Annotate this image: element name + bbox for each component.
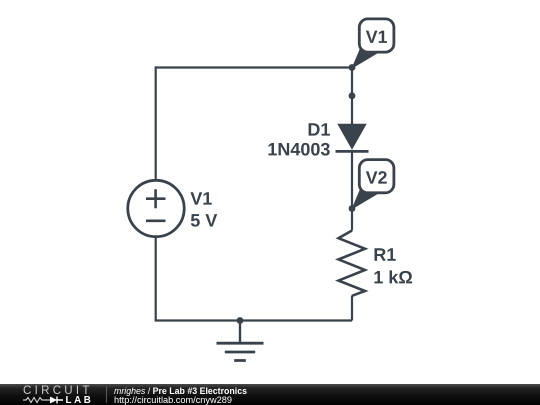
voltage source V1 5V — [128, 180, 184, 236]
wire right vertical V1-node to diode node — [351, 68, 353, 96]
wire left vertical (top) — [155, 66, 157, 181]
label 1N4003 — [268, 143, 329, 156]
probe flag V1 — [351, 19, 394, 69]
wire left vertical (bottom) — [155, 237, 157, 321]
label 1 kOhm — [374, 270, 412, 283]
footer line 1: author / title — [114, 387, 247, 396]
footer line 2: url — [114, 396, 232, 405]
probe flag V2 — [351, 160, 394, 210]
ground — [217, 321, 264, 361]
wire diode anode lead — [351, 96, 353, 125]
label V1 (source name) — [190, 192, 211, 204]
wire resistor top lead — [351, 209, 353, 231]
node dot V2 / resistor top — [349, 205, 356, 212]
node dot top-right corner — [349, 64, 356, 71]
label 5 V (source value) — [191, 214, 217, 227]
wire top rail — [156, 66, 352, 68]
resistor R1 zigzag — [339, 231, 366, 296]
footer separator — [106, 386, 107, 403]
wire resistor bottom lead — [351, 296, 353, 321]
diode D1 1N4003 — [336, 124, 369, 152]
footer bar — [0, 384, 540, 405]
node dot ground junction — [237, 317, 244, 324]
label R1 — [375, 248, 396, 260]
node dot diode anode — [349, 92, 356, 99]
label D1 — [309, 123, 330, 135]
svg-text:LAB: LAB — [66, 395, 94, 405]
wire diode cathode lead — [351, 152, 353, 209]
CircuitLab logo — [21, 384, 111, 405]
wire bottom rail — [155, 319, 352, 321]
